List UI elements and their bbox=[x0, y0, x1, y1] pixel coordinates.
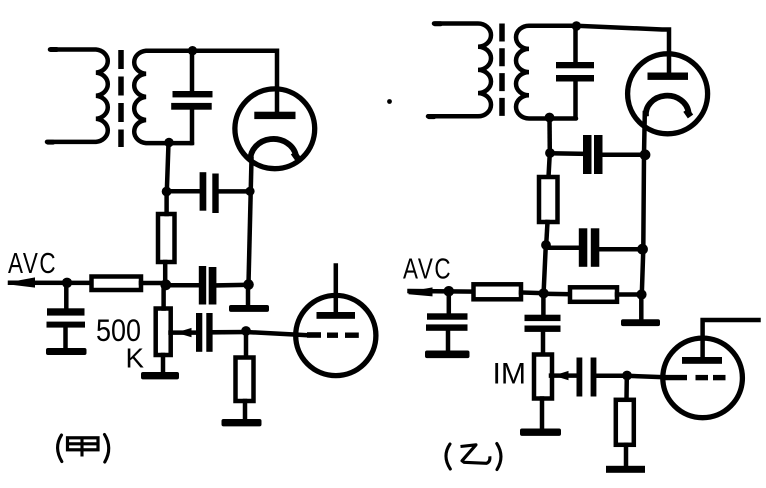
resistor R7 bbox=[624, 376, 629, 400]
capacitor C1 plates bbox=[173, 91, 213, 97]
capacitor C3 plates bbox=[47, 308, 85, 315]
capacitor C3 stem wire bbox=[64, 283, 69, 309]
node top of tuned circuit right bbox=[572, 21, 581, 30]
capacitor C1 lower stem wire bbox=[190, 109, 195, 143]
tube V1 cathode lead wire bbox=[249, 159, 252, 284]
node grid junction bbox=[241, 326, 251, 336]
capacitor C6 lower stem wire bbox=[573, 81, 578, 118]
svg-text:AVC: AVC bbox=[403, 254, 452, 285]
tube V2 plate lead stub bbox=[334, 266, 339, 313]
svg-text:IM: IM bbox=[493, 358, 527, 391]
capacitor C3 lower stem bbox=[63, 328, 68, 349]
ground under cathode node bbox=[246, 284, 251, 306]
capacitor C9 lower stem bbox=[446, 331, 451, 351]
node grid junction right bbox=[622, 371, 632, 381]
wire capacitor C7 to cathode line bbox=[603, 153, 645, 158]
node bottom of tuned circuit right bbox=[545, 113, 555, 123]
node B junction bbox=[162, 187, 172, 197]
node E junction bbox=[541, 240, 551, 250]
wire node E to capacitor C8 bbox=[546, 246, 580, 251]
resistor R3 bbox=[244, 331, 249, 357]
wire AVC line left bbox=[10, 280, 92, 285]
transformer T1 core bbox=[118, 50, 124, 147]
ground under R7 bbox=[624, 445, 629, 467]
wire capacitor C2 to cathode line bbox=[219, 189, 251, 194]
node top of tuned circuit bbox=[188, 46, 197, 55]
wire grid node to tube V2 bbox=[246, 332, 308, 335]
capacitor C2 plates bbox=[200, 172, 207, 211]
wire node D to capacitor C7 bbox=[550, 151, 584, 156]
tube V3 cathode lead wire bbox=[642, 113, 645, 295]
ground under C9 bbox=[425, 351, 470, 359]
transformer T1 primary winding bbox=[49, 47, 59, 52]
resistor R5 bbox=[474, 284, 522, 299]
ground under right node bbox=[639, 295, 644, 320]
capacitor C10 stem wire bbox=[541, 293, 546, 315]
node C junction bbox=[160, 279, 171, 290]
wire capacitor C8 to cathode line bbox=[599, 247, 643, 252]
wire node E down to AVC node bbox=[544, 245, 546, 293]
tube V4 plate bbox=[682, 357, 722, 364]
tube V4 envelope bbox=[663, 338, 743, 418]
tube V1 plate bbox=[254, 112, 295, 119]
wire top node to tube V3 plate bbox=[576, 26, 669, 73]
potentiometer 1M body bbox=[534, 355, 552, 399]
ground under potentiometer 500K bbox=[161, 355, 166, 373]
node cathode return bbox=[243, 279, 254, 290]
transformer T2 core bbox=[499, 24, 505, 119]
capacitor C9 stem wire bbox=[447, 292, 452, 315]
wire node B to capacitor C2 bbox=[167, 189, 200, 194]
tube V2 envelope bbox=[296, 295, 376, 375]
AVC arrow left bbox=[12, 277, 36, 287]
tube V4 grid dashes bbox=[665, 375, 687, 380]
capacitor C5 plates bbox=[196, 313, 202, 352]
capacitor C9 plates bbox=[427, 313, 468, 319]
capacitor C6 plates bbox=[556, 62, 594, 68]
wire top node to tube V1 plate bbox=[192, 51, 277, 112]
resistor R4 bbox=[549, 153, 550, 177]
capacitor C4 plates bbox=[199, 266, 206, 305]
tube V3 plate bbox=[648, 73, 689, 80]
wire capacitor C4 to cathode node bbox=[216, 283, 248, 288]
node AVC bypass junction bbox=[62, 278, 72, 288]
wire R6 to right cathode node bbox=[617, 292, 642, 297]
node on cathode line bbox=[637, 244, 648, 255]
ground under C3 bbox=[46, 348, 87, 355]
node AVC bypass junction right bbox=[444, 286, 455, 297]
wire tuned circuit bottom to node B bbox=[167, 143, 169, 192]
caption (乙) left paren bbox=[446, 444, 450, 469]
tube V1 envelope bbox=[235, 89, 315, 169]
node right end AVC run bbox=[636, 289, 646, 299]
potentiometer 1M wiper arrow bbox=[551, 373, 579, 378]
capacitor C8 plates bbox=[579, 228, 588, 266]
wire node C to capacitor C4 bbox=[166, 283, 200, 288]
tube V3 cathode bbox=[646, 96, 689, 117]
resistor R2 bbox=[92, 277, 142, 291]
transformer T1 secondary winding bbox=[134, 51, 192, 143]
stray ink dot bbox=[387, 99, 392, 104]
caption (乙) right paren bbox=[497, 444, 501, 470]
resistor R1 bbox=[158, 214, 175, 262]
caption (甲) right paren bbox=[105, 435, 109, 463]
tube V1 cathode bbox=[250, 139, 296, 161]
wire R5 to node F bbox=[521, 290, 544, 295]
caption glyph 乙 bbox=[461, 445, 490, 464]
junction on cathode line bbox=[245, 187, 254, 196]
caption glyph 甲 bbox=[68, 438, 99, 457]
capacitor C11 plates bbox=[577, 358, 583, 397]
resistor R6 bbox=[570, 287, 617, 302]
node F junction bbox=[539, 288, 549, 298]
transformer T2 secondary winding bbox=[516, 26, 576, 119]
wire bottom node down bbox=[547, 118, 552, 154]
ground under R3 bbox=[243, 401, 248, 420]
wire node F to resistor R6 bbox=[544, 292, 570, 297]
wire R2 to node C bbox=[141, 281, 166, 286]
wire AVC line right bbox=[410, 289, 474, 294]
svg-text:AVC: AVC bbox=[8, 248, 57, 279]
capacitor C10 lower stem bbox=[541, 332, 546, 355]
caption (甲) left paren bbox=[58, 435, 62, 462]
node bottom of tuned circuit bbox=[164, 138, 173, 147]
transformer T2 primary winding bbox=[433, 21, 443, 26]
capacitor C1 upper stem wire bbox=[190, 51, 195, 92]
potentiometer 500K wiper arrow bbox=[171, 330, 197, 335]
tube V4 plate lead wire bbox=[703, 320, 759, 357]
capacitor C7 plates bbox=[583, 135, 592, 174]
potentiometer 500K body bbox=[156, 309, 171, 356]
tube V2 grid dashes bbox=[307, 332, 321, 338]
capacitor C10 plates bbox=[525, 315, 561, 321]
node cathode line right bbox=[640, 149, 651, 160]
AVC arrow right bbox=[409, 287, 433, 296]
wire C11 to grid node right bbox=[596, 374, 627, 379]
ground under potentiometer 1M bbox=[540, 399, 545, 430]
wire grid node to tube V4 bbox=[627, 376, 666, 378]
wire C5 to grid node bbox=[213, 330, 246, 335]
tube V3 envelope bbox=[628, 54, 708, 134]
capacitor C6 upper stem wire bbox=[573, 26, 578, 62]
tube V2 plate bbox=[317, 312, 356, 319]
svg-text:K: K bbox=[126, 343, 145, 374]
node D junction bbox=[545, 148, 555, 158]
